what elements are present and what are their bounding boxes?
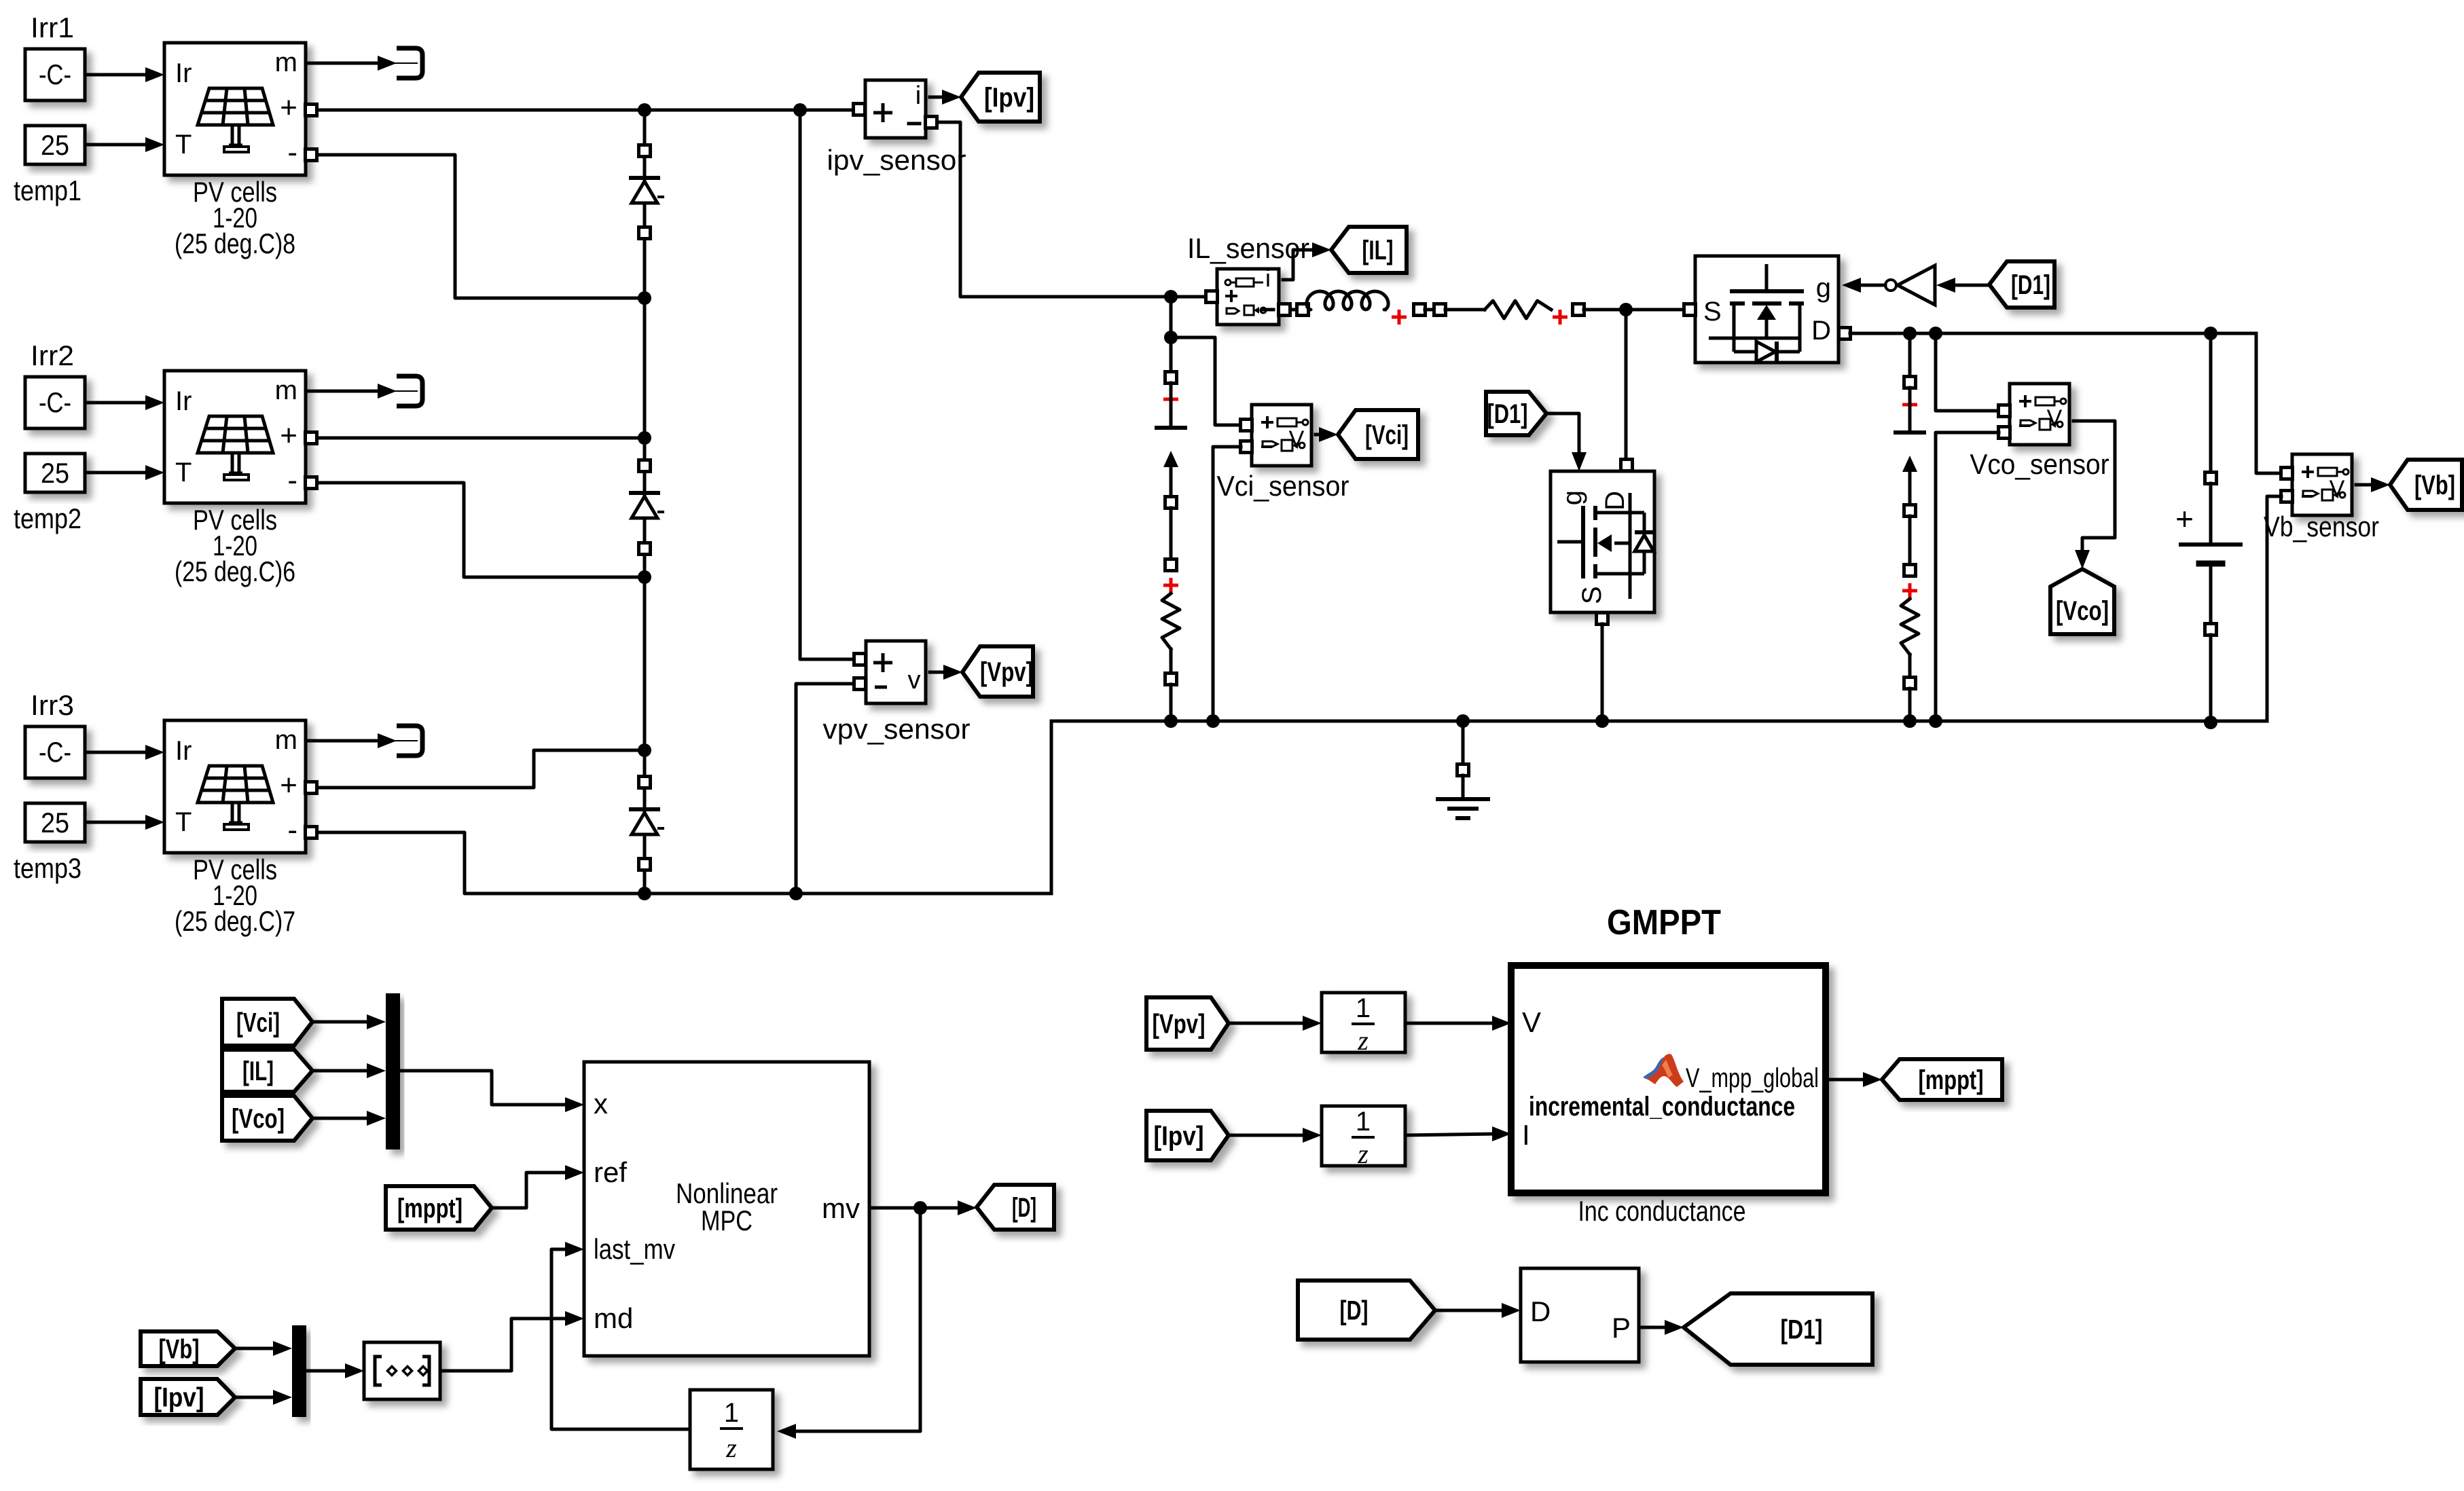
capacitor Ci top port — [1165, 372, 1177, 384]
wire PV1 m output to terminator — [306, 62, 377, 65]
svg-text:i: i — [916, 81, 921, 110]
svg-text:z: z — [725, 1433, 737, 1463]
svg-text:[Vci]: [Vci] — [236, 1008, 280, 1038]
wire Vb_sensor v to [Vb] — [2356, 483, 2372, 487]
resistor Rco polarity mark — [1902, 583, 1917, 598]
svg-text:m: m — [275, 375, 297, 405]
resistor Rco — [1901, 599, 1919, 655]
logic inverter U1 (NOT gate) — [1898, 265, 1935, 305]
svg-text:+: + — [2175, 501, 2194, 536]
wire PV3 + to diode bus — [317, 750, 645, 788]
resistor R1 — [1485, 301, 1551, 318]
wire Irr2 to PV2 Ir input — [85, 401, 146, 405]
svg-text:[D1]: [D1] — [1781, 1315, 1823, 1345]
wire selector to MPC md input — [440, 1319, 566, 1371]
svg-text:25: 25 — [41, 807, 69, 839]
wire Rco to rail — [1908, 688, 1912, 721]
svg-text:(25 deg.C)7: (25 deg.C)7 — [175, 905, 295, 937]
wire Vci_sensor - to rail — [1213, 447, 1241, 721]
wire [D] to rate block — [1435, 1309, 1503, 1312]
wire PV2 - to diode bus — [317, 483, 645, 577]
svg-text:[D1]: [D1] — [2011, 270, 2050, 300]
constant block 25 (temp1) — [25, 126, 85, 164]
wire IL_sensor to inductor L1 — [1290, 308, 1303, 312]
wire mux2 to selector — [306, 1369, 346, 1373]
inductor L1 right port — [1414, 304, 1426, 316]
wire PV2 + to diode bus — [317, 437, 645, 440]
svg-text:25: 25 — [41, 457, 69, 489]
wire Vco_sensor v to [Vco] — [2073, 421, 2115, 551]
junction PV1+/vpv tap — [793, 103, 807, 117]
junction Vci- on rail — [1206, 714, 1220, 728]
MATLAB logo icon — [1643, 1054, 1684, 1087]
svg-text:GMPPT: GMPPT — [1607, 903, 1721, 942]
riser lower-bus to rail — [1050, 721, 1053, 894]
PV1 - port — [306, 149, 317, 161]
MOSFET M2 D port — [1839, 328, 1851, 339]
resistor Rci bottom port — [1165, 674, 1177, 685]
bottom ground rail (net 0V) — [1051, 720, 2267, 723]
voltage sensor vpv_sensor block — [866, 641, 926, 703]
from tag [IL] (state) — [222, 1050, 312, 1092]
wire mv feedback to unit delay — [795, 1208, 920, 1431]
mux Mux1 (states) — [386, 993, 400, 1149]
svg-text:[Vco]: [Vco] — [232, 1104, 285, 1134]
svg-text:MPC: MPC — [701, 1204, 753, 1236]
svg-text:I: I — [1522, 1119, 1530, 1151]
MOSFET M1 icon — [1557, 493, 1654, 599]
unit delay 1/z block (feedback) — [690, 1390, 773, 1469]
bypass diode D2 — [631, 491, 658, 495]
svg-text:temp2: temp2 — [14, 502, 81, 534]
svg-text:Irr1: Irr1 — [31, 12, 74, 43]
junction battery - on rail — [2204, 716, 2217, 729]
from tag [Vci] (state) — [222, 999, 312, 1046]
wire inverter U1 to M2 gate — [1860, 284, 1885, 287]
wire PV1 - to diode bus — [317, 155, 645, 298]
terminator block (PV1 m) — [397, 48, 422, 78]
svg-text:Irr3: Irr3 — [31, 689, 74, 721]
wire [Ipv] to mux2 — [235, 1396, 274, 1399]
svg-text:v: v — [908, 666, 921, 695]
svg-text:Ir: Ir — [175, 386, 192, 416]
svg-text:vpv_sensor: vpv_sensor — [823, 713, 971, 745]
svg-text:(25 deg.C)8: (25 deg.C)8 — [175, 227, 295, 259]
goto tag [D] — [977, 1185, 1054, 1230]
svg-text:Irr2: Irr2 — [31, 339, 74, 371]
wire V_mpp_global output to [mppt] — [1826, 1078, 1864, 1082]
wire [mppt] to MPC ref input — [492, 1173, 566, 1208]
wire inductor to resistor R1 — [1425, 308, 1440, 312]
unit delay 1/z block (I) — [1322, 1106, 1405, 1166]
svg-text:g: g — [1557, 490, 1587, 505]
vpv_sensor + port — [854, 654, 866, 665]
goto tag [Vci] — [1338, 410, 1418, 459]
junction M1 drain tap — [1619, 303, 1633, 316]
wire Vb_sensor - to rail end — [2267, 496, 2281, 721]
wire unit delay to I input — [1405, 1134, 1493, 1135]
svg-text:[D1]: [D1] — [1487, 399, 1528, 429]
svg-text:-: - — [287, 464, 297, 497]
junction mv feedback tap — [913, 1201, 927, 1215]
wire rail down to capacitor Co — [1908, 333, 1912, 377]
resistor Rci polarity mark — [1163, 578, 1178, 593]
battery B1 bottom port — [2205, 624, 2217, 636]
wire unit delay to V input — [1405, 1022, 1493, 1025]
svg-text:D: D — [1600, 491, 1630, 511]
wire PV+ tap down to vpv_sensor + — [800, 110, 854, 659]
from tag [Vb] (md) — [141, 1331, 235, 1366]
goto tag [Vpv] — [962, 646, 1033, 697]
terminator block (PV3 m) — [397, 726, 422, 756]
PV array block PV3 (PV cells 1-20) — [164, 720, 306, 853]
junction PV2+ on bus — [638, 431, 651, 445]
PV array block PV2 (PV cells 1-20) — [164, 371, 306, 503]
svg-text:-C-: -C- — [39, 386, 71, 418]
capacitor Co bottom port — [1904, 505, 1916, 517]
svg-text:[mppt]: [mppt] — [397, 1194, 463, 1223]
svg-text:[Ipv]: [Ipv] — [1154, 1122, 1204, 1152]
PV1 + port — [306, 105, 317, 116]
svg-text:last_mv: last_mv — [594, 1233, 675, 1265]
svg-text:V: V — [1289, 426, 1305, 452]
voltage sensor Vb_sensor block — [2292, 454, 2352, 515]
rate transition block D/P — [1521, 1268, 1639, 1362]
ipv_sensor + port — [854, 104, 865, 115]
Vb_sensor + port — [2281, 468, 2293, 479]
junction M1 source on rail — [1595, 714, 1609, 728]
svg-text:T: T — [175, 807, 192, 837]
svg-text:m: m — [275, 725, 297, 755]
Nonlinear MPC controller block — [584, 1062, 869, 1356]
wire [Vco] to mux — [312, 1117, 368, 1120]
Vci_sensor + port — [1241, 420, 1252, 431]
resistor Rco top port — [1904, 565, 1916, 576]
goto tag [Vb] — [2390, 460, 2462, 510]
svg-text:[Vci]: [Vci] — [1365, 420, 1409, 450]
Vb_sensor - port — [2281, 491, 2293, 502]
svg-text:z: z — [1357, 1025, 1369, 1056]
MOSFET M1 block — [1551, 471, 1654, 612]
from tag [Ipv] (GMPPT input) — [1146, 1111, 1229, 1160]
svg-text:Vci_sensor: Vci_sensor — [1217, 470, 1349, 502]
current sensor ipv_sensor block — [865, 80, 926, 138]
wire node A to Vci_sensor + — [1171, 337, 1241, 425]
voltage sensor Vci_sensor block — [1252, 405, 1311, 466]
from tag [D1] (gate drive) — [1989, 261, 2054, 308]
capacitor Co — [1908, 388, 1912, 432]
MOSFET M1 D port — [1621, 460, 1633, 471]
wire Vco_sensor - to rail — [1936, 432, 1999, 721]
bypass diode D1 — [631, 176, 658, 180]
junction Vci+ tap — [1164, 331, 1178, 344]
wire M1 source to rail — [1601, 624, 1604, 721]
from tag [mppt] (reference) — [386, 1186, 492, 1230]
wire temp2 to PV2 T input — [85, 471, 146, 475]
svg-text:[Ipv]: [Ipv] — [984, 83, 1034, 113]
svg-text:V: V — [2330, 476, 2345, 502]
svg-text:[Vpv]: [Vpv] — [980, 657, 1033, 687]
svg-text:T: T — [175, 130, 192, 160]
capacitor Ci — [1170, 383, 1173, 428]
svg-text:D: D — [1530, 1295, 1551, 1327]
wire [Vci] to mux — [312, 1020, 368, 1024]
resistor Rco bottom port — [1904, 678, 1916, 689]
inductor L1 left port — [1297, 304, 1309, 316]
svg-text:incremental_conductance: incremental_conductance — [1529, 1092, 1795, 1122]
wire node A down to capacitor Ci — [1170, 297, 1173, 372]
constant block 25 (temp2) — [25, 454, 85, 492]
wire Ci to resistor Rci — [1170, 508, 1173, 559]
wire Irr3 to PV3 Ir input — [85, 751, 146, 754]
svg-text:-: - — [287, 136, 297, 169]
bypass diode D3 ports — [639, 777, 651, 788]
wire Rci to ground rail — [1170, 684, 1173, 721]
wire P output to [D1] — [1639, 1326, 1666, 1329]
goto tag [mppt] — [1882, 1059, 2002, 1100]
current sensor IL_sensor block — [1217, 269, 1279, 325]
svg-text:Ir: Ir — [175, 736, 192, 766]
svg-text:i: i — [1265, 264, 1271, 292]
vector concatenate / selector block — [364, 1342, 440, 1399]
wire battery - to rail — [2209, 635, 2213, 722]
wire M2 drain rail (net Vout+) — [1850, 332, 2256, 335]
goto tag [Ipv] — [961, 73, 1040, 122]
svg-text:1: 1 — [1356, 993, 1371, 1023]
bypass diode D3 — [631, 807, 658, 811]
svg-text:Vco_sensor: Vco_sensor — [1970, 448, 2109, 480]
MOSFET M1 S port — [1597, 613, 1608, 625]
svg-text:T: T — [175, 458, 192, 487]
wire rail to Vb_sensor + — [2256, 333, 2281, 473]
wire PV3 m output to terminator — [306, 739, 377, 743]
svg-text:D: D — [1811, 316, 1831, 346]
wire [D1] to inverter U1 — [1954, 284, 1989, 287]
junction battery + tap — [2204, 327, 2217, 340]
Vco_sensor - port — [1999, 427, 2010, 439]
resistor Rci top port — [1165, 559, 1177, 571]
svg-text:[mppt]: [mppt] — [1919, 1065, 1984, 1095]
wire MPC mv output to [D] — [869, 1207, 959, 1210]
ipv_sensor - port — [926, 117, 937, 128]
goto tag [Vco] — [2050, 569, 2114, 634]
wire PV1 + to diode bus and sensors (net PV+) — [317, 109, 854, 112]
svg-text:+: + — [280, 91, 297, 124]
svg-text:S: S — [1703, 297, 1722, 327]
wire Irr1 to PV1 Ir input — [85, 73, 146, 77]
PV2 - port — [306, 477, 317, 489]
ground tap junction — [1456, 714, 1470, 728]
MOSFET M2 S port — [1684, 304, 1696, 316]
svg-text:ref: ref — [594, 1156, 627, 1188]
from tag [Vpv] (GMPPT input) — [1146, 997, 1229, 1050]
svg-text:temp1: temp1 — [14, 174, 81, 206]
inductor L1 — [1307, 291, 1388, 310]
wire temp1 to PV1 T input — [85, 143, 146, 147]
wire rail tap down to Vco_sensor + — [1936, 333, 1999, 411]
svg-text:P: P — [1612, 1312, 1631, 1344]
ground port — [1457, 765, 1469, 776]
junction vpv- on lower bus — [789, 887, 803, 900]
wire IL_sensor i output to [IL] — [1283, 250, 1313, 280]
svg-text:x: x — [594, 1088, 608, 1120]
IL_sensor input port — [1206, 291, 1218, 303]
from tag [D1] (M1 gate drive) — [1486, 392, 1546, 435]
MATLAB function block Inc conductance (incremental_conductance) — [1511, 965, 1826, 1193]
junction PV2- on bus — [638, 570, 651, 584]
svg-text:V_mpp_global: V_mpp_global — [1686, 1063, 1819, 1093]
svg-text:V: V — [1522, 1006, 1541, 1038]
svg-text:-: - — [287, 813, 297, 847]
IL_sensor output port — [1279, 304, 1290, 316]
wire [Vpv] to unit delay 1 — [1229, 1022, 1304, 1025]
svg-text:temp3: temp3 — [14, 852, 81, 884]
wire vpv_sensor v output to [Vpv] — [930, 671, 945, 674]
terminator block (PV2 m) — [397, 376, 422, 406]
vpv_sensor - port — [854, 678, 866, 690]
svg-text:[D]: [D] — [1340, 1296, 1369, 1326]
constant block 25 (temp3) — [25, 803, 85, 842]
svg-text:1: 1 — [724, 1398, 739, 1428]
wire PV2 m output to terminator — [306, 390, 377, 393]
wire PV3 - to lower bus — [317, 832, 645, 894]
bypass diode D1 ports — [639, 145, 651, 157]
inductor L1 polarity mark — [1392, 310, 1407, 325]
svg-text:g: g — [1816, 273, 1831, 303]
resistor R1 polarity mark — [1553, 310, 1568, 325]
from tag [D] (duty cycle) — [1298, 1281, 1435, 1340]
wire [IL] to mux — [312, 1069, 368, 1073]
svg-text:Vb_sensor: Vb_sensor — [2264, 511, 2379, 542]
svg-text:25: 25 — [41, 129, 69, 161]
Vci_sensor - port — [1241, 441, 1252, 453]
svg-text:[Vb]: [Vb] — [2414, 471, 2455, 500]
junction PV3+ on bus — [638, 743, 651, 757]
svg-text:V: V — [2047, 405, 2063, 431]
resistor R1 left port — [1434, 304, 1446, 316]
svg-text:Inc conductance: Inc conductance — [1578, 1195, 1746, 1227]
wire [Ipv] to unit delay 2 — [1229, 1134, 1304, 1137]
Vco_sensor + port — [1999, 405, 2010, 417]
junction Vco+ tap — [1929, 327, 1942, 340]
wire mux to MPC x input — [400, 1071, 566, 1105]
svg-text:md: md — [594, 1302, 633, 1334]
battery B1 — [2209, 483, 2213, 545]
junction PV1+/diode bus — [638, 103, 651, 117]
svg-text:1: 1 — [1356, 1107, 1371, 1137]
PV array block PV1 (PV cells 1-20) — [164, 43, 306, 175]
svg-text:IL_sensor: IL_sensor — [1187, 232, 1309, 264]
wire vpv_sensor - to lower bus — [796, 684, 854, 894]
capacitor Ci polarity mark — [1163, 392, 1178, 407]
resistor Rci — [1162, 593, 1180, 649]
bypass diode D2 ports — [639, 460, 651, 472]
wire [Vb] to mux2 — [235, 1347, 274, 1350]
junction Rci on rail — [1164, 714, 1178, 728]
PV3 + port — [306, 782, 317, 794]
svg-text:ipv_sensor: ipv_sensor — [827, 144, 966, 176]
MOSFET M2 block — [1695, 256, 1838, 363]
svg-text:(25 deg.C)6: (25 deg.C)6 — [175, 555, 295, 587]
capacitor Co polarity mark — [1902, 397, 1917, 412]
svg-text:+: + — [280, 419, 297, 452]
junction Rco on rail — [1903, 714, 1917, 728]
svg-text:-C-: -C- — [39, 58, 71, 90]
junction PV1- on bus — [638, 291, 651, 305]
wire resistor R1 to MOSFET M2 source — [1584, 308, 1684, 312]
constant block -C- (irradiance source Irr2) — [25, 377, 85, 428]
svg-text:[Ipv]: [Ipv] — [154, 1383, 204, 1413]
lower bus wire (PV-) — [645, 892, 1051, 896]
ground symbol — [1462, 775, 1465, 799]
unit delay 1/z block (V) — [1322, 993, 1405, 1052]
wire ipv_sensor - to IL_sensor node — [937, 122, 1206, 297]
wire junction to M1 drain — [1625, 310, 1628, 460]
svg-text:+: + — [280, 769, 297, 802]
from tag [Vco] (state) — [222, 1096, 312, 1141]
from tag [Ipv] (md) — [141, 1379, 235, 1415]
junction input-cap node A — [1164, 290, 1178, 303]
constant block -C- (irradiance source Irr3) — [25, 726, 85, 778]
voltage sensor Vco_sensor block — [2010, 384, 2069, 445]
wire Vci_sensor v to [Vci] — [1316, 433, 1320, 437]
wire rail to battery + — [2209, 333, 2213, 473]
svg-text:Ir: Ir — [175, 58, 192, 88]
constant block -C- (irradiance source Irr1) — [25, 49, 85, 100]
battery B1 top port — [2205, 473, 2217, 484]
wire [D1] to M1 gate — [1546, 413, 1579, 452]
wire to ground — [1462, 721, 1465, 765]
junction PV3-/lower bus — [638, 887, 651, 900]
svg-text:[Vb]: [Vb] — [159, 1335, 200, 1365]
wire unit delay to MPC last_mv input — [551, 1249, 690, 1429]
capacitor Ci bottom port — [1165, 497, 1177, 509]
resistor R1 right port — [1573, 304, 1584, 316]
goto tag [D1] — [1684, 1293, 1872, 1365]
svg-text:[Vpv]: [Vpv] — [1153, 1010, 1206, 1039]
svg-text:m: m — [275, 48, 297, 77]
svg-text:S: S — [1577, 586, 1607, 604]
MOSFET M1 labels — [1557, 490, 1630, 604]
wire ipv_sensor i output to [Ipv] — [930, 96, 943, 99]
PV3 - port — [306, 827, 317, 839]
goto tag [IL] — [1331, 227, 1407, 273]
junction output-cap tap — [1903, 327, 1917, 340]
PV2 + port — [306, 432, 317, 444]
bypass diode bus vertical wire — [643, 110, 647, 894]
svg-text:-C-: -C- — [39, 736, 71, 768]
junction Vco- on rail — [1929, 714, 1942, 728]
svg-text:[D]: [D] — [1012, 1193, 1036, 1223]
mux Mux2 (measured disturbances) — [292, 1325, 306, 1417]
wire Co to resistor Rco — [1908, 516, 1912, 565]
svg-text:[IL]: [IL] — [242, 1056, 274, 1086]
wire temp3 to PV3 T input — [85, 821, 146, 824]
svg-text:[Vco]: [Vco] — [2056, 596, 2109, 626]
svg-text:[IL]: [IL] — [1362, 236, 1394, 265]
capacitor Co top port — [1904, 377, 1916, 388]
svg-text:mv: mv — [822, 1192, 860, 1224]
MOSFET M2 icon — [1709, 264, 1804, 362]
svg-text:z: z — [1357, 1139, 1369, 1169]
